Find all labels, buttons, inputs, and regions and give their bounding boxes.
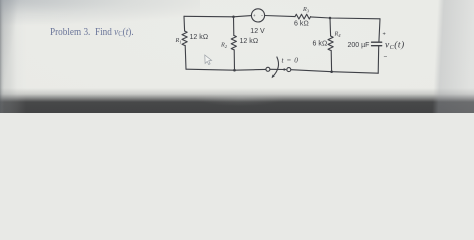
svg-text:12 kΩ: 12 kΩ	[240, 38, 259, 45]
svg-text:t = 0: t = 0	[282, 55, 299, 64]
wire bottom left	[186, 69, 266, 70]
svg-text:R1: R1	[175, 37, 182, 45]
svg-text:−: −	[261, 13, 264, 18]
wire right	[379, 19, 380, 42]
switch terminal circle left	[266, 67, 270, 71]
svg-text:vC(t): vC(t)	[385, 40, 405, 52]
switch arm arrowhead	[283, 68, 286, 71]
switch arc arrowhead	[272, 74, 275, 78]
wire branch R4	[329, 18, 332, 36]
wire bottom right	[291, 70, 378, 74]
svg-text:R2: R2	[220, 42, 228, 50]
voltage source U1	[251, 9, 264, 22]
wire branch 2	[233, 17, 235, 36]
svg-text:−: −	[384, 54, 388, 61]
resistor R1 zigzag	[182, 31, 187, 45]
svg-text:6 kΩ: 6 kΩ	[313, 41, 328, 48]
resistor R4 zigzag	[328, 36, 333, 50]
resistor R2 zigzag	[231, 35, 236, 49]
svg-text:200 µF: 200 µF	[348, 42, 370, 49]
node C junction dot	[233, 69, 236, 72]
switch arm arrow	[270, 68, 284, 70]
svg-text:R4: R4	[334, 30, 342, 38]
capacitor C1 plates	[372, 42, 382, 46]
switch terminal circle right	[287, 68, 291, 72]
svg-text:R3: R3	[302, 6, 310, 14]
wire top right	[311, 17, 380, 19]
switch motion arc	[272, 57, 278, 77]
wire left	[183, 16, 186, 31]
mouse cursor	[205, 55, 212, 65]
resistor R3 zigzag	[295, 14, 311, 19]
svg-text:+: +	[383, 31, 386, 37]
svg-text:+: +	[253, 13, 256, 18]
wire top left	[184, 16, 251, 17]
svg-text:12 V: 12 V	[250, 28, 265, 35]
node B junction dot	[329, 17, 332, 20]
svg-text:6 kΩ: 6 kΩ	[294, 21, 309, 28]
node D junction dot	[330, 70, 333, 73]
svg-text:12 kΩ: 12 kΩ	[190, 34, 209, 41]
wire top mid	[265, 16, 295, 17]
node A junction dot	[232, 15, 235, 18]
